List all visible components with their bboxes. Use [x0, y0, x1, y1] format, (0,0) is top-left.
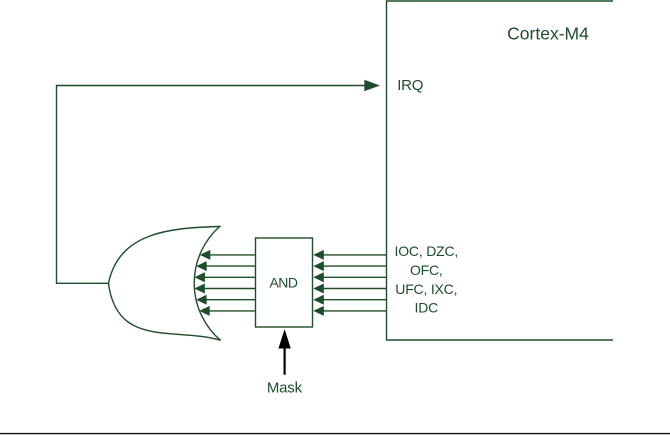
- arrowhead AND input 6: [313, 306, 324, 316]
- arrowhead AND input 2: [313, 261, 324, 271]
- wire AND to OR input 2: [206, 265, 256, 267]
- arrowhead OR input 3: [194, 272, 205, 282]
- svg-text:IDC: IDC: [415, 300, 439, 316]
- arrowhead Mask into AND: [278, 329, 290, 348]
- svg-text:Mask: Mask: [267, 380, 303, 397]
- OR gate G1: [109, 227, 221, 341]
- arrowhead OR input 5: [196, 295, 207, 305]
- wire AND to OR input 1: [210, 254, 256, 256]
- arrowhead OR input 2: [196, 261, 207, 271]
- arrowhead OR input 1: [200, 250, 211, 260]
- svg-text:AND: AND: [269, 274, 297, 290]
- wire Cortex to AND input 4: [323, 288, 387, 290]
- wire Cortex to AND input 3: [323, 276, 387, 278]
- svg-text:Cortex-M4: Cortex-M4: [507, 24, 589, 44]
- wire Cortex to AND input 5: [323, 299, 387, 301]
- arrowhead into IRQ: [364, 80, 380, 92]
- arrowhead OR input 6: [199, 306, 210, 316]
- bottom page rule: [0, 433, 670, 435]
- wire Cortex to AND input 2: [323, 265, 387, 267]
- arrowhead AND input 5: [313, 295, 324, 305]
- arrowhead AND input 4: [313, 284, 324, 294]
- Cortex-M4 processor box U1 (open right side): [387, 1, 614, 340]
- wire: OR gate output feedback to IRQ: [57, 86, 366, 284]
- arrowhead AND input 1: [313, 250, 324, 260]
- wire AND to OR input 5: [206, 299, 256, 301]
- arrowhead OR input 4: [194, 284, 205, 294]
- arrowhead AND input 3: [313, 272, 324, 282]
- svg-text:IRQ: IRQ: [397, 77, 423, 94]
- wire Mask control into AND: [284, 348, 286, 375]
- AND gate box U2: [256, 238, 313, 327]
- svg-text:OFC,: OFC,: [410, 262, 443, 278]
- wire AND to OR input 6: [209, 310, 256, 312]
- wire Cortex to AND input 1: [323, 254, 387, 256]
- wire AND to OR input 3: [204, 276, 255, 278]
- wire Cortex to AND input 6: [323, 310, 387, 312]
- svg-text:UFC, IXC,: UFC, IXC,: [395, 281, 457, 297]
- svg-text:IOC, DZC,: IOC, DZC,: [395, 243, 459, 259]
- wire AND to OR input 4: [204, 288, 256, 290]
